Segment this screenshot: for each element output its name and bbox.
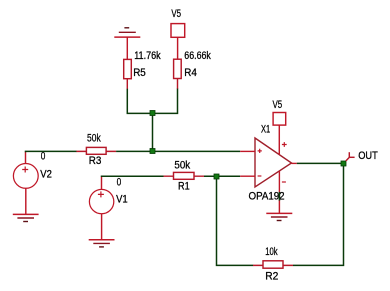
svg-text:V5: V5 — [273, 99, 283, 111]
wire R1 to op-amp - input (through node C) — [204, 175, 240, 177]
wire op-amp V- to ground — [278, 192, 280, 201]
wire node C down to R2 — [217, 179, 254, 266]
wire op-amp output to node D — [297, 162, 341, 164]
ground GND2 (below V2) — [13, 214, 39, 221]
power V5 rail (op-amp V+) — [273, 113, 286, 155]
wire V1 to R1 — [102, 175, 164, 178]
source V1 — [89, 177, 113, 240]
svg-text:0: 0 — [117, 177, 122, 189]
svg-text:10k: 10k — [265, 246, 278, 258]
ground GND1 (flipped, above R5) — [114, 28, 140, 60]
resistor R4 — [174, 59, 182, 89]
svg-text:R5: R5 — [133, 67, 146, 79]
wire R3 to op-amp + input (through node B) — [116, 150, 240, 152]
svg-text:R4: R4 — [184, 67, 197, 79]
svg-text:X1: X1 — [261, 124, 270, 136]
svg-text:V2: V2 — [40, 168, 52, 180]
junction node D (output node) — [341, 161, 346, 166]
op-amp X1 — [240, 138, 297, 193]
resistor R3 — [76, 147, 116, 154]
junction node B (on + input wire) — [150, 149, 155, 154]
svg-text:R1: R1 — [178, 180, 190, 192]
wire R5 to node A — [127, 89, 150, 114]
svg-text:66.66k: 66.66k — [184, 50, 211, 62]
resistor R5 — [124, 59, 132, 89]
svg-text:50k: 50k — [87, 132, 101, 144]
output pin OUT — [346, 152, 355, 161]
wire R2 to node D (feedback) — [293, 166, 344, 265]
svg-text:R2: R2 — [265, 271, 278, 283]
junction node C (feedback node) — [214, 174, 219, 179]
svg-text:V5: V5 — [171, 8, 181, 20]
source V2 — [13, 152, 38, 214]
ground GND4 (below op-amp) — [266, 201, 292, 221]
wire R4 to node A — [155, 89, 178, 114]
svg-text:OUT: OUT — [358, 150, 378, 162]
svg-text:50k: 50k — [174, 159, 190, 171]
svg-text:0: 0 — [41, 151, 46, 163]
svg-text:V1: V1 — [116, 194, 128, 206]
svg-text:R3: R3 — [89, 155, 102, 167]
power V5 rail (top) — [171, 24, 185, 60]
resistor R1 — [164, 172, 205, 179]
wire V2 to R3 — [26, 150, 77, 153]
ground GND3 (below V1) — [89, 240, 115, 247]
wire node A down to node B — [152, 116, 154, 149]
svg-text:11.76k: 11.76k — [134, 50, 161, 62]
resistor R2 — [253, 261, 293, 268]
junction node A (divider node) — [150, 111, 155, 116]
